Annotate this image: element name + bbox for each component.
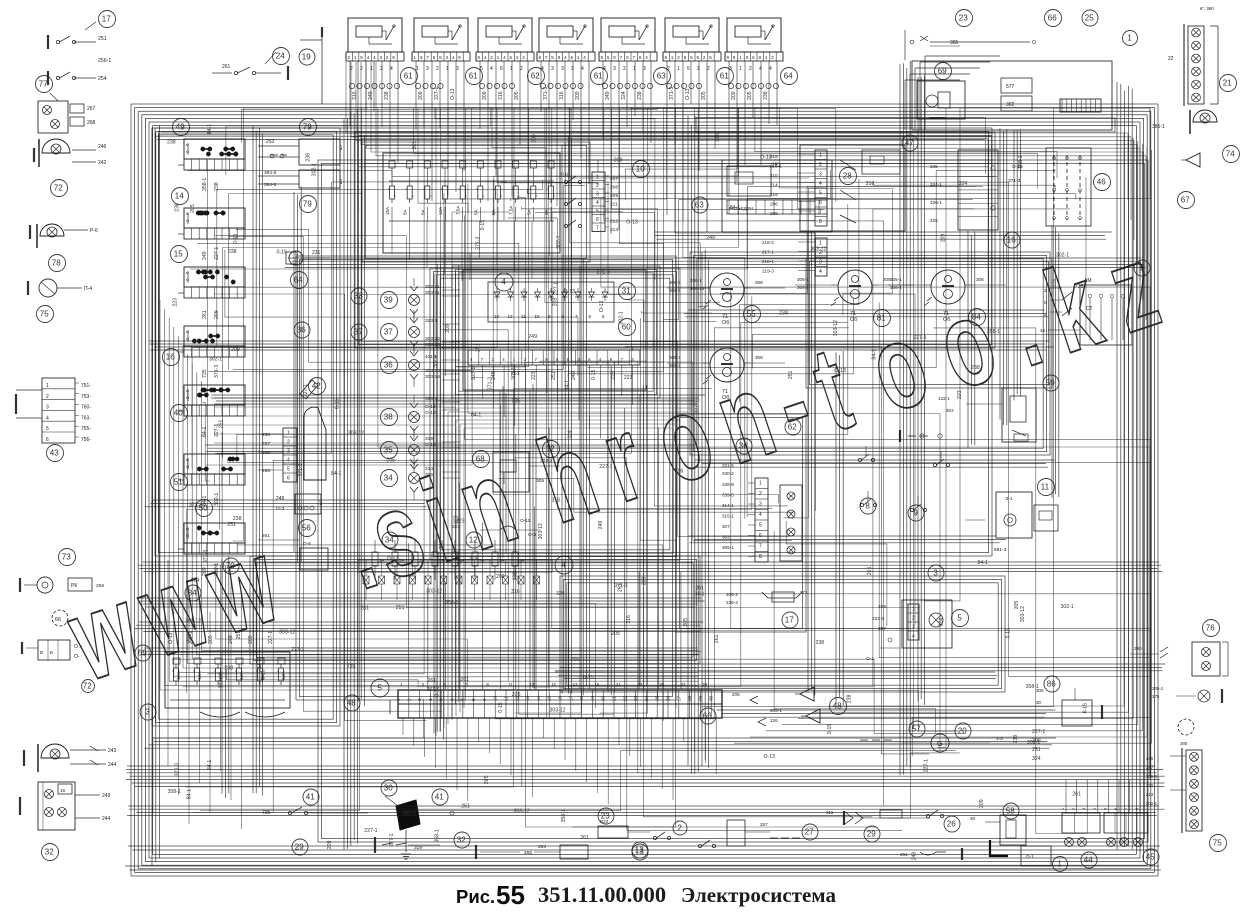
svg-text:О-3: О-3 — [528, 532, 536, 538]
svg-text:29: 29 — [867, 830, 876, 839]
svg-text:211: 211 — [610, 202, 618, 208]
svg-text:308: 308 — [755, 355, 763, 360]
svg-text:3: 3 — [551, 66, 554, 72]
svg-text:268: 268 — [87, 120, 96, 126]
svg-text:238: 238 — [779, 311, 788, 317]
svg-text:17: 17 — [573, 682, 578, 687]
svg-text:5: 5 — [46, 426, 49, 432]
svg-text:17: 17 — [568, 695, 573, 701]
svg-text:324: 324 — [1032, 756, 1041, 762]
svg-text:77: 77 — [39, 80, 48, 89]
svg-text:2: 2 — [380, 66, 383, 72]
svg-text:251: 251 — [788, 371, 794, 380]
svg-text:303-14: 303-14 — [425, 374, 440, 380]
svg-text:302-1: 302-1 — [209, 356, 222, 362]
svg-text:0-15: 0-15 — [1083, 703, 1089, 713]
svg-text:205: 205 — [571, 657, 580, 663]
svg-text:257: 257 — [262, 441, 270, 447]
svg-text:84-1: 84-1 — [471, 412, 481, 418]
svg-text:227-1: 227-1 — [924, 759, 930, 772]
svg-text:84-1: 84-1 — [207, 124, 213, 134]
svg-text:7: 7 — [759, 544, 762, 550]
svg-text:223: 223 — [624, 375, 633, 381]
svg-text:15А: 15А — [385, 206, 390, 215]
svg-text:О-13: О-13 — [626, 219, 638, 225]
svg-text:58: 58 — [1006, 807, 1015, 816]
svg-text:358-1: 358-1 — [1026, 684, 1039, 690]
svg-text:371-3: 371-3 — [175, 763, 181, 776]
svg-text:29: 29 — [295, 843, 304, 852]
svg-text:214: 214 — [770, 183, 778, 188]
svg-text:м: м — [186, 329, 189, 334]
svg-text:254: 254 — [98, 76, 107, 82]
svg-text:5: 5 — [500, 66, 503, 72]
svg-text:238: 238 — [384, 91, 390, 100]
svg-text:209: 209 — [575, 91, 581, 100]
svg-text:10: 10 — [535, 314, 541, 319]
svg-text:225: 225 — [930, 218, 938, 223]
svg-text:209: 209 — [532, 134, 538, 143]
svg-text:4: 4 — [769, 66, 772, 72]
svg-text:267: 267 — [87, 106, 96, 112]
svg-text:316: 316 — [626, 615, 632, 624]
svg-text:13: 13 — [635, 846, 644, 855]
svg-text:55: 55 — [496, 880, 525, 910]
svg-text:261: 261 — [460, 677, 469, 683]
svg-text:314-1: 314-1 — [722, 503, 734, 508]
svg-text:358-1: 358-1 — [1018, 155, 1024, 168]
svg-text:756-: 756- — [81, 437, 91, 443]
svg-text:308: 308 — [755, 280, 763, 285]
svg-text:72: 72 — [54, 184, 63, 193]
svg-text:38: 38 — [384, 413, 393, 422]
svg-text:249: 249 — [605, 91, 611, 100]
svg-text:735: 735 — [262, 810, 271, 816]
svg-text:62: 62 — [531, 72, 540, 81]
svg-text:351.11.00.000: 351.11.00.000 — [538, 882, 666, 907]
svg-text:86: 86 — [1047, 680, 1056, 689]
svg-text:227-1: 227-1 — [291, 647, 304, 653]
svg-text:14: 14 — [536, 695, 541, 701]
svg-text:205-2: 205-2 — [726, 592, 738, 597]
svg-text:4: 4 — [428, 698, 433, 701]
svg-text:66: 66 — [55, 617, 61, 623]
svg-text:205-1: 205-1 — [1152, 686, 1164, 691]
svg-text:84-1: 84-1 — [331, 471, 341, 477]
svg-text:358-1: 358-1 — [434, 829, 440, 842]
svg-text:76: 76 — [1206, 624, 1215, 633]
svg-text:45: 45 — [1146, 853, 1155, 862]
svg-text:261: 261 — [412, 141, 418, 150]
svg-text:4: 4 — [759, 512, 762, 518]
svg-text:39: 39 — [384, 296, 393, 305]
svg-text:4: 4 — [759, 66, 762, 72]
svg-text:205: 205 — [512, 692, 521, 698]
svg-text:209: 209 — [731, 91, 737, 100]
svg-text:305-1: 305-1 — [669, 280, 681, 285]
svg-text:33: 33 — [354, 292, 363, 301]
svg-text:251: 251 — [772, 163, 781, 169]
svg-text:205: 205 — [514, 91, 520, 100]
svg-text:261: 261 — [219, 420, 225, 429]
svg-text:27: 27 — [676, 695, 681, 701]
svg-text:261: 261 — [1072, 792, 1081, 798]
svg-text:6: 6 — [287, 476, 290, 482]
svg-text:47: 47 — [905, 139, 914, 148]
svg-text:1: 1 — [1127, 34, 1132, 43]
svg-text:371-3: 371-3 — [597, 270, 610, 276]
svg-text:0-15: 0-15 — [233, 234, 239, 244]
svg-text:57: 57 — [912, 725, 921, 734]
svg-text:251: 251 — [236, 631, 242, 640]
svg-text:3: 3 — [613, 66, 616, 72]
svg-text:7,5А: 7,5А — [509, 205, 514, 215]
svg-text:217-1: 217-1 — [762, 250, 774, 255]
svg-text:2: 2 — [677, 824, 682, 833]
svg-text:8: 8 — [865, 502, 870, 511]
svg-text:70: 70 — [226, 562, 235, 571]
svg-text:303-12: 303-12 — [833, 320, 839, 336]
svg-text:302-1: 302-1 — [1061, 604, 1074, 610]
svg-text:358-1: 358-1 — [445, 600, 458, 606]
svg-text:238: 238 — [224, 666, 233, 672]
svg-text:6: 6 — [819, 200, 822, 206]
svg-text:5: 5 — [687, 66, 690, 72]
svg-text:11: 11 — [1041, 483, 1050, 492]
svg-text:1: 1 — [287, 431, 290, 437]
svg-text:0-15: 0-15 — [334, 398, 340, 408]
svg-text:3: 3 — [643, 66, 646, 72]
svg-text:209: 209 — [445, 324, 451, 333]
svg-text:223: 223 — [531, 371, 537, 380]
svg-text:2: 2 — [749, 66, 752, 72]
svg-text:330-2: 330-2 — [722, 471, 734, 476]
svg-text:4: 4 — [581, 66, 584, 72]
svg-text:209: 209 — [979, 799, 985, 808]
svg-text:м: м — [186, 270, 189, 275]
svg-text:7: 7 — [596, 226, 599, 232]
svg-text:13: 13 — [494, 314, 500, 319]
svg-text:1: 1 — [739, 66, 742, 72]
svg-text:238: 238 — [971, 365, 980, 371]
svg-text:261: 261 — [617, 583, 623, 592]
svg-text:324: 324 — [621, 91, 627, 100]
svg-text:61: 61 — [720, 72, 729, 81]
svg-text:16: 16 — [60, 788, 66, 793]
svg-text:735: 735 — [511, 399, 520, 405]
svg-text:41: 41 — [435, 793, 444, 802]
svg-text:316: 316 — [560, 172, 569, 178]
svg-text:324: 324 — [567, 430, 573, 439]
svg-text:37: 37 — [354, 328, 363, 337]
svg-text:11: 11 — [504, 696, 509, 701]
svg-text:22: 22 — [1168, 56, 1174, 62]
svg-text:132-1: 132-1 — [938, 396, 950, 401]
svg-text:316: 316 — [511, 589, 520, 595]
svg-text:5: 5 — [957, 614, 962, 623]
svg-text:371-3: 371-3 — [476, 237, 482, 250]
svg-text:41: 41 — [306, 793, 315, 802]
svg-text:209: 209 — [614, 158, 623, 164]
svg-text:О: О — [186, 277, 189, 282]
svg-text:205: 205 — [190, 204, 196, 213]
svg-text:3: 3 — [145, 708, 150, 717]
svg-text:324: 324 — [939, 618, 945, 627]
svg-text:305: 305 — [950, 40, 959, 46]
svg-text:303-12: 303-12 — [538, 523, 544, 539]
svg-text:261: 261 — [262, 533, 270, 539]
svg-text:5А: 5А — [403, 208, 408, 215]
svg-text:213: 213 — [610, 227, 618, 233]
svg-text:307: 307 — [722, 524, 730, 529]
svg-text:324: 324 — [457, 555, 463, 564]
svg-text:15: 15 — [547, 695, 552, 701]
svg-text:64: 64 — [294, 276, 303, 285]
svg-text:В: В — [40, 650, 43, 655]
svg-text:303-12: 303-12 — [279, 629, 295, 635]
svg-text:763-: 763- — [81, 415, 91, 421]
svg-text:0-15: 0-15 — [277, 250, 287, 256]
svg-text:316: 316 — [715, 133, 721, 142]
svg-text:242: 242 — [98, 160, 107, 166]
svg-text:249: 249 — [528, 334, 537, 340]
svg-text:227-1: 227-1 — [403, 811, 416, 817]
svg-text:303: 303 — [722, 535, 730, 540]
svg-text:209: 209 — [770, 211, 778, 216]
svg-text:3: 3 — [933, 569, 938, 578]
svg-text:0-15: 0-15 — [1006, 628, 1012, 638]
svg-text:238: 238 — [847, 694, 853, 703]
svg-text:17: 17 — [102, 15, 111, 24]
svg-text:42: 42 — [312, 382, 321, 391]
svg-text:64: 64 — [784, 72, 793, 81]
svg-text:261: 261 — [222, 64, 231, 70]
svg-text:м: м — [186, 142, 189, 147]
svg-text:7: 7 — [819, 210, 822, 216]
svg-text:258: 258 — [262, 468, 270, 474]
svg-text:302: 302 — [1006, 102, 1015, 108]
svg-text:358-1: 358-1 — [561, 809, 567, 822]
svg-text:В24: В24 — [600, 819, 609, 824]
svg-text:3: 3 — [571, 66, 574, 72]
svg-text:316: 316 — [552, 498, 561, 504]
svg-text:205: 205 — [683, 618, 689, 627]
svg-text:1: 1 — [370, 66, 373, 72]
svg-text:261: 261 — [867, 566, 873, 575]
svg-text:15: 15 — [551, 682, 556, 687]
svg-text:202-1: 202-1 — [1146, 801, 1158, 806]
svg-text:3: 3 — [426, 66, 429, 72]
svg-text:316: 316 — [675, 469, 684, 475]
svg-text:3: 3 — [596, 192, 599, 198]
svg-text:8: 8 — [471, 698, 476, 701]
svg-text:275: 275 — [1152, 694, 1160, 699]
svg-text:205: 205 — [484, 775, 490, 784]
svg-text:371-3: 371-3 — [298, 463, 304, 476]
svg-text:223: 223 — [453, 515, 459, 524]
svg-text:223: 223 — [172, 298, 178, 307]
svg-text:249: 249 — [598, 521, 604, 530]
svg-text:308: 308 — [976, 277, 984, 282]
svg-text:577: 577 — [1006, 84, 1015, 90]
svg-text:5: 5 — [759, 523, 762, 529]
svg-text:760-: 760- — [81, 405, 91, 411]
svg-text:43: 43 — [50, 449, 59, 458]
svg-text:34: 34 — [385, 536, 394, 545]
svg-text:371-3: 371-3 — [669, 87, 675, 100]
svg-text:15: 15 — [174, 250, 183, 259]
svg-text:219-3: 219-3 — [762, 269, 774, 274]
svg-text:30: 30 — [709, 695, 714, 701]
svg-text:205: 205 — [611, 631, 620, 637]
svg-text:251: 251 — [461, 804, 470, 810]
svg-text:Об: Об — [722, 320, 729, 326]
svg-text:238: 238 — [174, 203, 180, 212]
svg-text:27: 27 — [805, 828, 814, 837]
svg-text:23: 23 — [633, 695, 638, 701]
svg-text:78: 78 — [52, 259, 61, 268]
svg-text:306-15: 306-15 — [690, 286, 705, 291]
svg-text:223: 223 — [957, 390, 963, 399]
svg-text:303-12: 303-12 — [185, 618, 201, 624]
svg-text:227-1: 227-1 — [554, 282, 560, 295]
svg-text:332: 332 — [1146, 783, 1154, 788]
svg-text:О-6: О-6 — [303, 541, 311, 546]
svg-text:0-15: 0-15 — [480, 220, 486, 230]
svg-text:227-1: 227-1 — [599, 464, 612, 470]
svg-text:46: 46 — [1097, 178, 1106, 187]
svg-text:205: 205 — [701, 91, 707, 100]
svg-text:238: 238 — [637, 91, 643, 100]
svg-text:216-2: 216-2 — [762, 240, 774, 245]
svg-text:223: 223 — [187, 634, 193, 643]
svg-text:316: 316 — [866, 181, 875, 187]
svg-text:209: 209 — [552, 298, 558, 307]
svg-text:735: 735 — [202, 369, 208, 378]
svg-text:591-3: 591-3 — [994, 547, 1007, 553]
svg-text:О-1: О-1 — [1026, 854, 1034, 859]
svg-text:3: 3 — [46, 405, 49, 411]
svg-text:Рис.: Рис. — [456, 886, 495, 907]
svg-text:16: 16 — [558, 695, 563, 701]
svg-text:2: 2 — [697, 66, 700, 72]
svg-text:79: 79 — [303, 123, 312, 132]
svg-text:84-1: 84-1 — [202, 496, 208, 506]
svg-text:249: 249 — [439, 540, 445, 549]
svg-text:84-1: 84-1 — [872, 349, 878, 359]
svg-text:209: 209 — [940, 233, 946, 242]
svg-text:2: 2 — [707, 66, 710, 72]
svg-text:30: 30 — [970, 816, 976, 821]
svg-text:1: 1 — [633, 66, 636, 72]
svg-text:315-1: 315-1 — [722, 514, 734, 519]
svg-text:1: 1 — [446, 66, 449, 72]
svg-text:210: 210 — [770, 173, 778, 178]
svg-text:209: 209 — [327, 841, 333, 850]
svg-text:37: 37 — [384, 328, 393, 337]
svg-text:36: 36 — [297, 326, 306, 335]
svg-text:303-12: 303-12 — [1020, 606, 1026, 622]
svg-text:4: 4 — [490, 66, 493, 72]
svg-text:303-12: 303-12 — [550, 708, 566, 714]
svg-text:25: 25 — [1085, 14, 1094, 23]
svg-text:302: 302 — [946, 408, 954, 413]
svg-text:61: 61 — [594, 72, 603, 81]
svg-text:246: 246 — [98, 144, 107, 150]
svg-text:6: 6 — [46, 437, 49, 443]
svg-text:238: 238 — [228, 249, 237, 255]
svg-text:24: 24 — [276, 52, 285, 61]
svg-text:84-1: 84-1 — [730, 205, 740, 211]
svg-text:18: 18 — [579, 695, 584, 701]
svg-text:209: 209 — [418, 91, 424, 100]
svg-text:О-13: О-13 — [685, 88, 691, 100]
svg-text:4: 4 — [390, 66, 393, 72]
svg-text:2: 2 — [759, 491, 762, 497]
svg-text:225-3: 225-3 — [726, 600, 738, 605]
svg-text:5А: 5А — [420, 208, 425, 215]
svg-text:244: 244 — [108, 762, 117, 768]
svg-text:14: 14 — [175, 192, 184, 201]
svg-text:2: 2 — [287, 440, 290, 446]
svg-text:2: 2 — [520, 66, 523, 72]
svg-text:251: 251 — [396, 605, 405, 611]
svg-text:5: 5 — [377, 684, 382, 693]
svg-text:2: 2 — [46, 394, 49, 400]
svg-text:305-1: 305-1 — [669, 355, 681, 360]
svg-text:63: 63 — [657, 72, 666, 81]
svg-text:305-1: 305-1 — [722, 545, 734, 550]
svg-text:17: 17 — [785, 616, 794, 625]
svg-text:216: 216 — [770, 192, 778, 197]
svg-text:209: 209 — [482, 91, 488, 100]
svg-text:4: 4 — [46, 415, 49, 421]
svg-text:12: 12 — [508, 314, 514, 319]
svg-text:84-1: 84-1 — [694, 592, 704, 598]
svg-text:41: 41 — [1040, 328, 1046, 334]
svg-text:О-13: О-13 — [760, 155, 772, 161]
svg-text:303-12: 303-12 — [219, 672, 225, 688]
svg-text:75: 75 — [40, 310, 49, 319]
svg-text:2: 2 — [406, 698, 411, 701]
svg-text:316: 316 — [352, 91, 358, 100]
svg-text:238: 238 — [1013, 735, 1019, 744]
svg-text:19: 19 — [302, 53, 311, 62]
svg-text:256-1: 256-1 — [98, 58, 111, 64]
svg-text:227-1: 227-1 — [1032, 729, 1045, 735]
svg-text:Р-6: Р-6 — [90, 228, 98, 234]
svg-text:0-15: 0-15 — [498, 702, 504, 712]
svg-text:302-1: 302-1 — [433, 355, 439, 368]
svg-text:20: 20 — [601, 695, 606, 701]
svg-text:61: 61 — [469, 72, 478, 81]
svg-text:302-1: 302-1 — [618, 311, 624, 324]
svg-text:753-: 753- — [81, 394, 91, 400]
svg-text:П-4: П-4 — [84, 286, 92, 292]
svg-text:2: 2 — [436, 66, 439, 72]
svg-text:226: 226 — [770, 718, 778, 723]
svg-text:23: 23 — [959, 14, 968, 23]
svg-text:212: 212 — [610, 219, 618, 225]
svg-text:2: 2 — [350, 66, 353, 72]
svg-text:5: 5 — [287, 467, 290, 473]
svg-text:21: 21 — [612, 695, 617, 701]
svg-text:49: 49 — [176, 123, 185, 132]
svg-text:209: 209 — [641, 576, 647, 585]
svg-text:324: 324 — [556, 591, 565, 597]
svg-text:302-1: 302-1 — [1027, 740, 1040, 746]
svg-text:238: 238 — [167, 139, 176, 145]
